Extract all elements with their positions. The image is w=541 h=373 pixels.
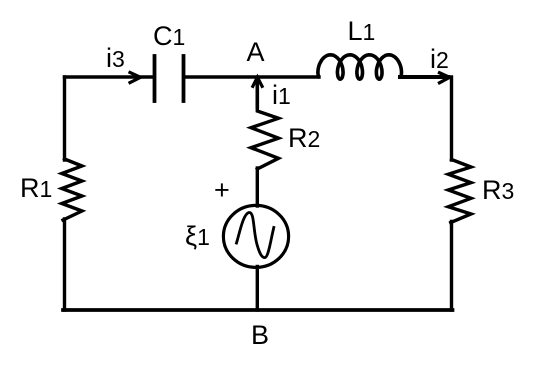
- wire top-left horizontal segment: [65, 75, 154, 78]
- resistor R3: [448, 160, 471, 223]
- svg-text:ξ1: ξ1: [185, 221, 210, 251]
- svg-text:A: A: [247, 37, 265, 67]
- svg-text:i1: i1: [272, 80, 291, 110]
- wire bottom horizontal: [63, 308, 453, 312]
- voltage source circle: [223, 205, 288, 267]
- svg-text:i2: i2: [430, 44, 449, 74]
- wire R2 to source: [256, 168, 259, 206]
- resistor R1: [62, 159, 82, 220]
- wire right vertical top: [450, 77, 453, 160]
- svg-text:R2: R2: [288, 123, 320, 153]
- capacitor C1: [155, 56, 184, 101]
- voltage source sine wave: [237, 212, 274, 257]
- wire left vertical top: [63, 77, 66, 160]
- wire left vertical bottom: [63, 219, 66, 310]
- resistor R2: [251, 107, 279, 170]
- inductor L1: [318, 55, 402, 79]
- wire source to bottom: [256, 267, 259, 311]
- svg-text:B: B: [251, 320, 269, 350]
- svg-text:R1: R1: [20, 173, 52, 203]
- svg-text:C1: C1: [153, 21, 185, 51]
- svg-text:L1: L1: [348, 16, 376, 46]
- wire i2 segment: [400, 75, 448, 79]
- svg-text:R3: R3: [482, 175, 514, 205]
- current arrow i1: [255, 79, 259, 107]
- current arrow i3 head: [130, 73, 141, 83]
- svg-text:i3: i3: [106, 43, 125, 73]
- svg-text:+: +: [214, 175, 230, 205]
- wire top middle segment: [185, 75, 319, 78]
- wire right vertical bottom: [450, 222, 453, 311]
- current arrow i2 head: [440, 73, 450, 83]
